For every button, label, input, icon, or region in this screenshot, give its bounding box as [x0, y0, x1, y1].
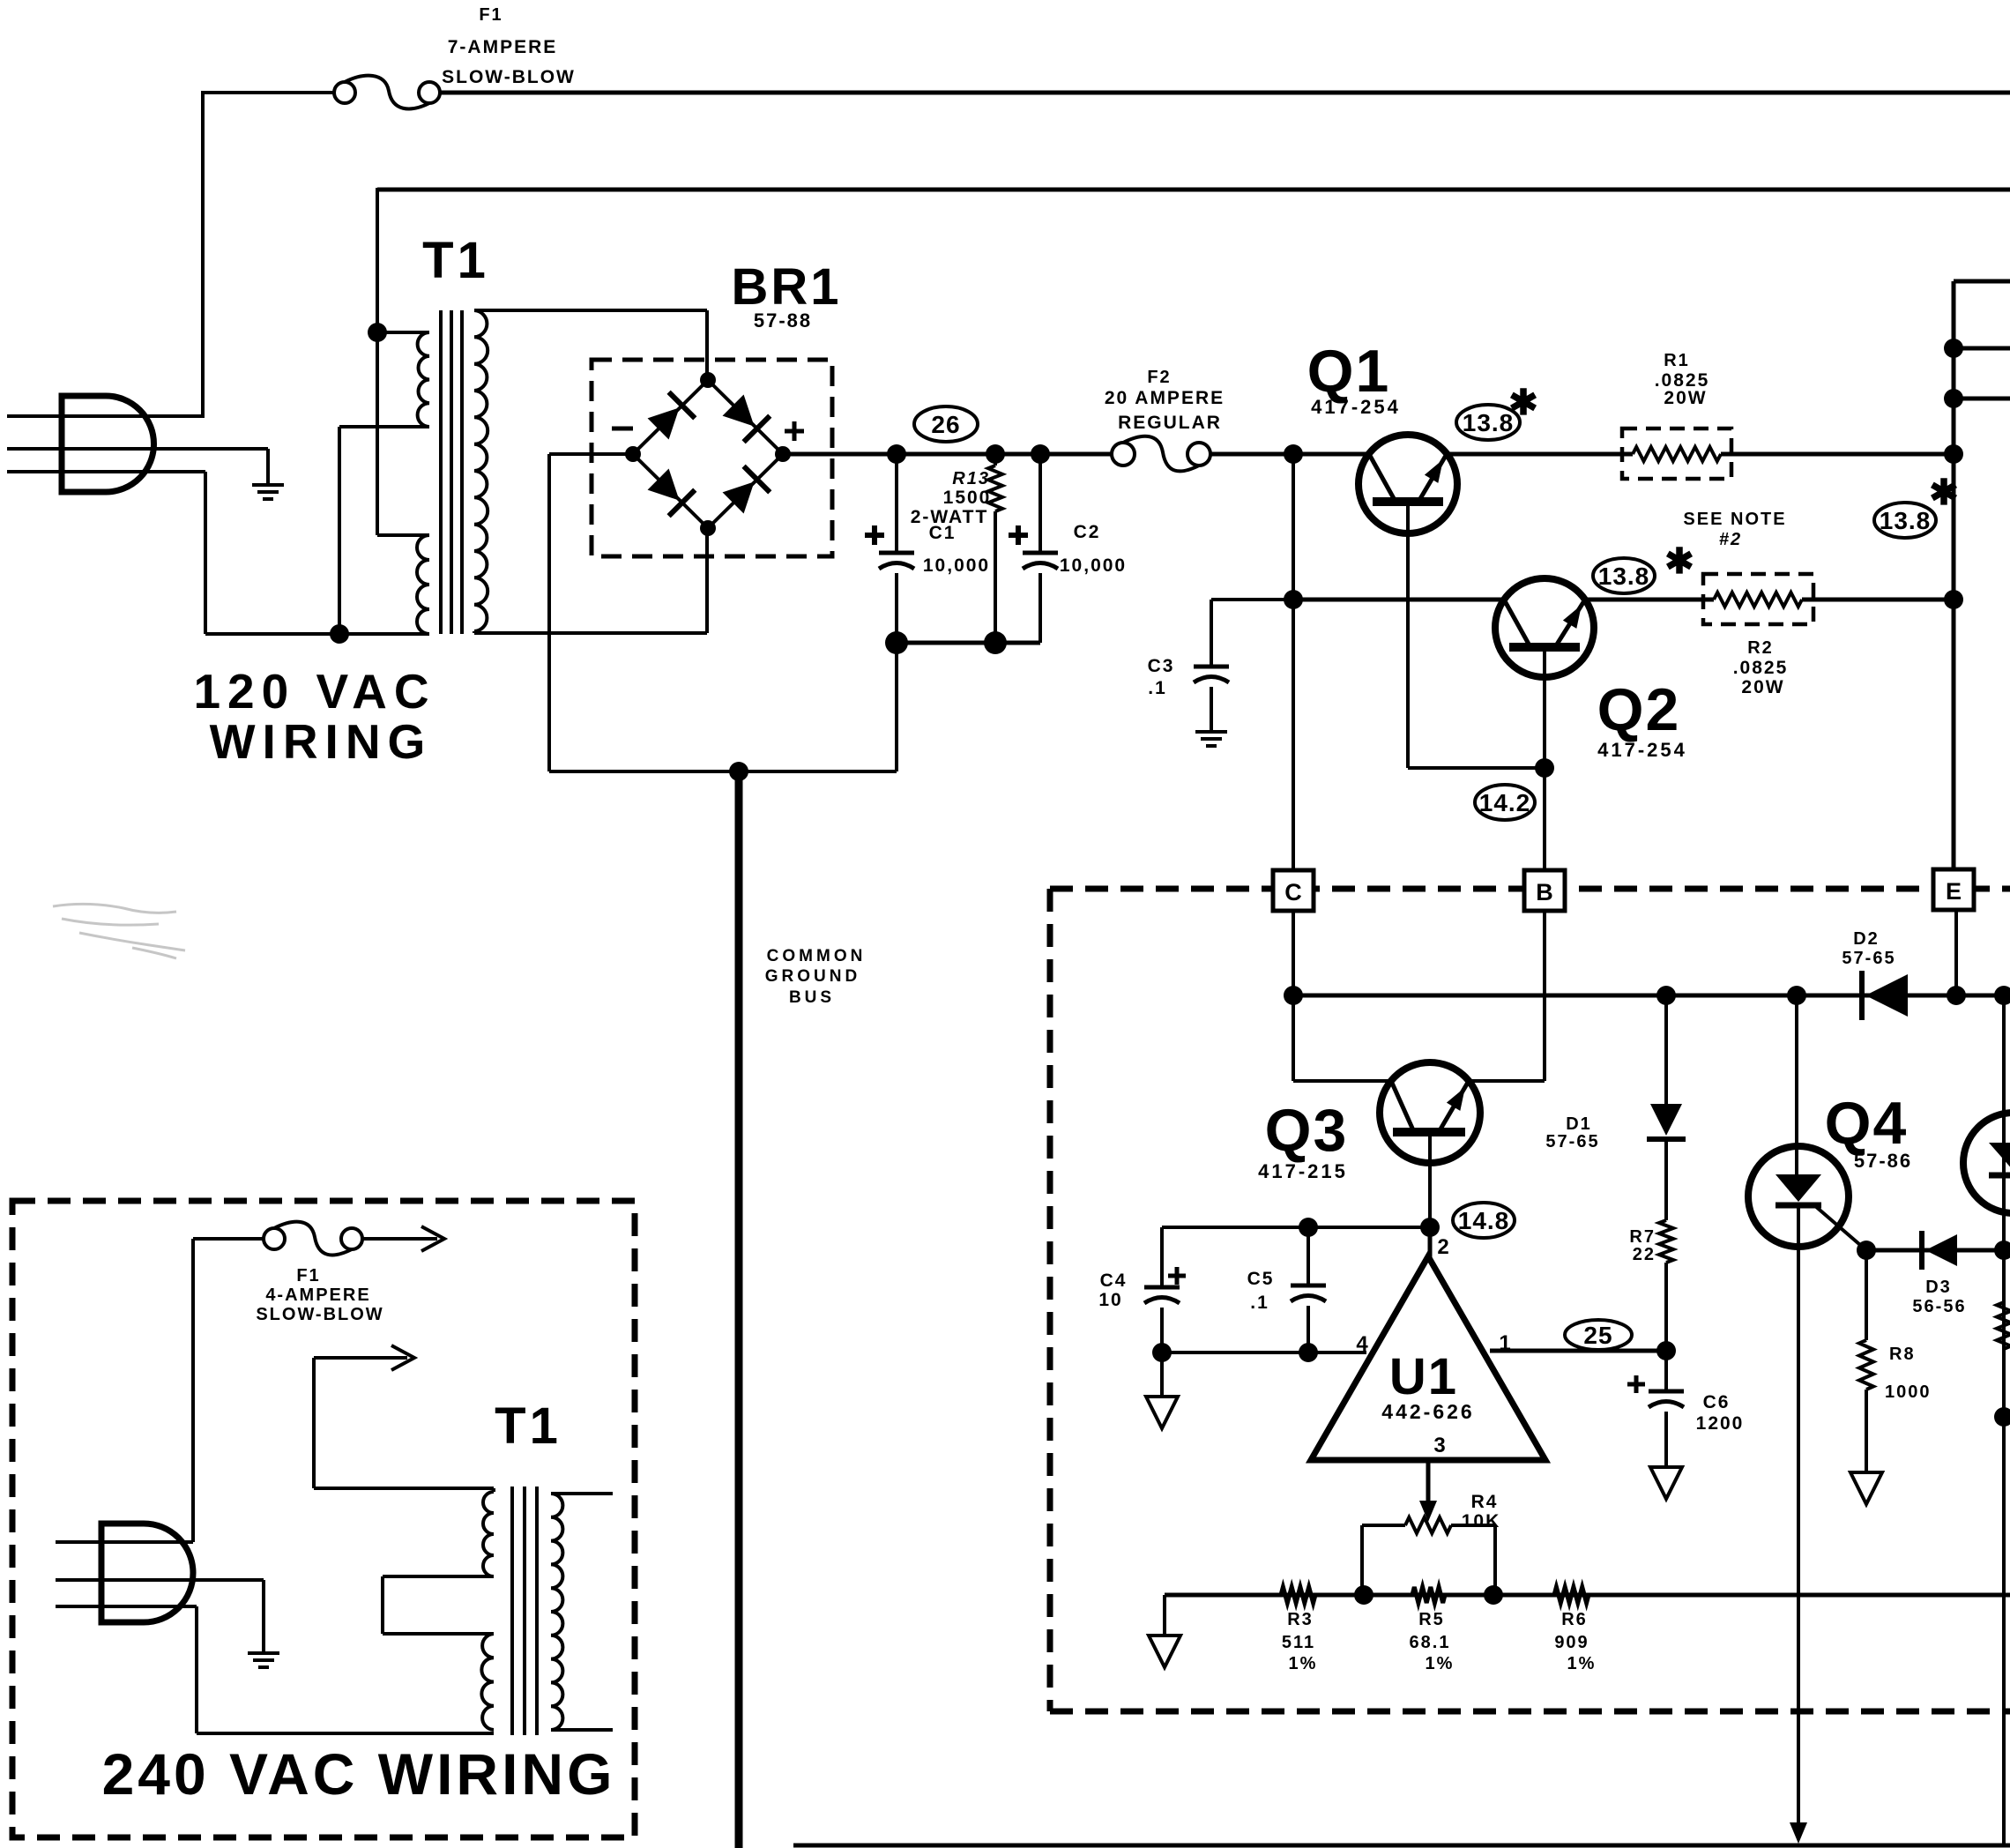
- wire E terminal down: [1954, 909, 1958, 995]
- wire F1 240 output with arrow: [363, 1237, 437, 1241]
- svg-text:10,000: 10,000: [923, 555, 990, 576]
- wire fuse F1 output line to right edge: [441, 91, 2010, 95]
- node junction Q2 rail left: [1284, 590, 1303, 609]
- transformer T1 secondary winding: [474, 310, 488, 631]
- svg-text:7-AMPERE: 7-AMPERE: [448, 37, 558, 57]
- wire U1 pin1 output: [1490, 1349, 1666, 1353]
- earth ground symbol (120 VAC line): [252, 483, 284, 487]
- ground arrow at C4: [1146, 1397, 1178, 1428]
- wire tap to primary winding 1 top: [377, 331, 429, 334]
- label bridge minus: [612, 427, 633, 431]
- wire 240 tap to winding1 top: [314, 1487, 494, 1490]
- wire right bus top stub: [1954, 279, 2010, 284]
- svg-text:C6: C6: [1703, 1392, 1731, 1412]
- svg-text:25: 25: [1583, 1322, 1612, 1349]
- svg-text:Q2: Q2: [1597, 676, 1681, 743]
- wire main positive rail from bridge to F2: [783, 452, 1112, 457]
- wire resistor row: [1165, 1593, 2010, 1598]
- wire C3 stub: [1211, 598, 1293, 601]
- earth ground symbol (240 VAC): [248, 1651, 279, 1655]
- node junction right bus stub 3: [1944, 389, 1963, 408]
- wire capacitor bottom rail: [897, 641, 1040, 645]
- node value oval 13.8 at Q2: [1593, 558, 1655, 593]
- wire Q1 base down: [1406, 506, 1410, 768]
- node junction C line: [1284, 986, 1303, 1005]
- label bridge plus: [785, 429, 804, 434]
- transistor Q2 emitter arrowhead: [1563, 600, 1589, 629]
- svg-text:R4: R4: [1471, 1492, 1499, 1512]
- transistor Q1 emitter line: [1418, 454, 1447, 502]
- svg-text:57-65: 57-65: [1842, 949, 1895, 968]
- svg-text:20W: 20W: [1741, 677, 1784, 697]
- capacitor C2: [1038, 454, 1042, 553]
- scan smudge (decorative): [53, 904, 185, 958]
- node junction Q4 anode: [1787, 986, 1806, 1005]
- node junction R3/R5/R4: [1354, 1585, 1373, 1605]
- svg-text:57-88: 57-88: [754, 309, 812, 332]
- wire bottom prong down: [204, 472, 207, 634]
- svg-text:1%: 1%: [1426, 1654, 1455, 1673]
- wire R7 to C6 node: [1664, 1263, 1668, 1351]
- resistor R2: [1714, 592, 1802, 607]
- svg-text:13.8: 13.8: [1880, 507, 1932, 534]
- svg-text:D1: D1: [1566, 1114, 1592, 1134]
- wire 240 secondary top stub: [551, 1492, 613, 1495]
- bridge diamond wires: [633, 380, 783, 528]
- resistor R7: [1659, 1220, 1673, 1263]
- transistor Q2 base bar: [1509, 643, 1580, 652]
- regulator board dashed outline top edge: [1050, 886, 2010, 892]
- op-amp U1 triangle: [1311, 1256, 1545, 1460]
- wire R1 to right bus: [1721, 452, 1954, 457]
- wire C terminal down: [1292, 911, 1295, 1081]
- wire U1 pin2 stem: [1428, 1227, 1433, 1258]
- node junction right column lower: [1994, 1407, 2010, 1427]
- svg-text:240 VAC WIRING: 240 VAC WIRING: [102, 1741, 616, 1807]
- fuse F2 20 ampere: [1123, 436, 1199, 472]
- AC plug body (240 VAC): [101, 1524, 193, 1622]
- svg-text:BUS: BUS: [789, 988, 835, 1007]
- node junction R5/R6/R4: [1484, 1585, 1503, 1605]
- wire right bus stub 2: [1954, 346, 2010, 351]
- svg-text:1200: 1200: [1696, 1413, 1745, 1434]
- capacitor C3: [1194, 665, 1229, 669]
- resistor R1 dashed box: [1622, 428, 1731, 479]
- resistor R9 (clipped): [1997, 1302, 2010, 1349]
- 240 VAC wiring dashed outline: [12, 1201, 635, 1837]
- wire 240 tap arrow line: [312, 1358, 316, 1488]
- node junction C5 bottom: [1299, 1343, 1318, 1362]
- diode D3: [1922, 1231, 1957, 1270]
- wire R2 to right bus: [1802, 598, 1954, 602]
- open arrowhead 240 tap: [391, 1345, 414, 1370]
- thyristor Q5 circle (clipped): [1963, 1113, 2010, 1213]
- ground arrow at R8: [1850, 1472, 1882, 1504]
- svg-text:120 VAC: 120 VAC: [193, 664, 435, 719]
- svg-text:R6: R6: [1561, 1610, 1588, 1629]
- wire B corner to Q3 emitter: [1469, 1079, 1545, 1083]
- svg-text:1%: 1%: [1567, 1654, 1597, 1673]
- wire bottom bus: [793, 1844, 2010, 1848]
- node bridge bottom vertex: [700, 520, 716, 536]
- node bridge top vertex: [700, 372, 716, 388]
- transformer T1 primary winding 2: [417, 535, 429, 634]
- transformer T1-240 primary winding 1: [483, 1492, 494, 1576]
- potentiometer R4: [1362, 1524, 1405, 1527]
- regulator board dashed outline left edge: [1047, 889, 1053, 1711]
- svg-text:Q1: Q1: [1307, 338, 1391, 405]
- wire Q1 emitter to R1: [1447, 452, 1633, 457]
- node junction R1 right bus: [1944, 444, 1963, 464]
- thyristor Q5 triangle (clipped): [1989, 1143, 2010, 1171]
- node junction F2 output: [1284, 444, 1303, 464]
- svg-text:Q3: Q3: [1265, 1097, 1349, 1164]
- node junction C1 top: [887, 444, 906, 464]
- svg-text:.1: .1: [1250, 1293, 1269, 1313]
- bridge rectifier BR1 dashed outline: [592, 360, 832, 556]
- svg-text:#2: #2: [1719, 530, 1742, 549]
- regulator board dashed outline bottom edge: [1050, 1709, 2010, 1715]
- thyristor Q4 triangle: [1775, 1174, 1821, 1202]
- svg-text:C: C: [1284, 879, 1302, 905]
- svg-text:57-65: 57-65: [1545, 1132, 1599, 1151]
- wire second AC line to right edge: [377, 188, 2010, 192]
- wire D1 to R7: [1664, 1139, 1668, 1220]
- wire C1 bottom down to ground rail: [895, 643, 898, 771]
- svg-text:4: 4: [1356, 1332, 1368, 1356]
- svg-text:GROUND: GROUND: [765, 967, 860, 986]
- wire middle prong to earth ground: [266, 449, 270, 485]
- svg-text:56-56: 56-56: [1912, 1297, 1966, 1316]
- wire bridge left vertex to ground rail: [549, 452, 633, 456]
- svg-text:511: 511: [1282, 1633, 1315, 1652]
- svg-text:U1: U1: [1389, 1348, 1458, 1405]
- node junction C4 bottom: [1152, 1343, 1172, 1362]
- wire C corner to Q3 collector: [1293, 1079, 1391, 1083]
- svg-text:417-254: 417-254: [1311, 396, 1401, 418]
- transistor Q3 collector line: [1391, 1081, 1414, 1132]
- node value oval 14.8: [1453, 1203, 1515, 1238]
- ground arrow at C6: [1650, 1467, 1682, 1499]
- node junction R13 bottom: [984, 631, 1007, 654]
- svg-text:14.8: 14.8: [1458, 1207, 1510, 1234]
- plug bottom prong wire: [7, 470, 205, 473]
- transistor Q2 emitter line: [1555, 600, 1585, 647]
- wire C4 ground stem: [1160, 1352, 1164, 1397]
- resistor R8 with stem: [1865, 1250, 1868, 1340]
- wire right column vertical: [2002, 995, 2006, 1845]
- svg-text:R1: R1: [1664, 351, 1690, 370]
- AC plug body (120 VAC): [62, 396, 153, 492]
- node junction R13 top: [986, 444, 1005, 464]
- wire Q4 cathode down: [1797, 1205, 1800, 1828]
- common ground bus (heavy vertical): [735, 771, 743, 1848]
- wire 240 middle prong to ground: [262, 1580, 265, 1653]
- node value oval 25: [1565, 1320, 1632, 1350]
- transistor Q2 collector line: [1504, 600, 1530, 647]
- node junction Q3 base / U1 pin2: [1420, 1218, 1440, 1237]
- svg-text:10: 10: [1098, 1290, 1122, 1310]
- transistor Q1 collector line: [1369, 454, 1396, 502]
- node junction D1 top: [1656, 986, 1676, 1005]
- transistor Q1 emitter arrowhead: [1425, 455, 1450, 483]
- transistor Q3 emitter arrowhead: [1447, 1083, 1472, 1111]
- svg-text:3: 3: [1433, 1434, 1445, 1457]
- 240 plug top prong: [56, 1540, 193, 1544]
- svg-text:R2: R2: [1747, 638, 1774, 658]
- node junction right bus stub 2: [1944, 339, 1963, 358]
- wire 240 secondary bottom stub: [551, 1728, 613, 1732]
- svg-text:R7: R7: [1629, 1227, 1656, 1247]
- wire internal bus y=1129: [1293, 994, 2004, 998]
- wire 240 plug top prong to fuse: [191, 1239, 195, 1542]
- node junction C1 bottom: [885, 631, 908, 654]
- node junction C6 top: [1656, 1341, 1676, 1360]
- wire right output bus vertical: [1952, 281, 1956, 869]
- node bridge left vertex: [625, 446, 641, 462]
- diode D1: [1647, 1104, 1686, 1139]
- bridge diode bottom-right: [720, 466, 770, 517]
- wire Q4 anode down: [1795, 995, 1798, 1174]
- svg-text:✱: ✱: [1508, 384, 1538, 422]
- 240 plug middle prong: [56, 1578, 264, 1582]
- bridge diode top-right: [720, 392, 770, 443]
- label C1 plus: [865, 533, 884, 538]
- label C6 plus: [1627, 1382, 1645, 1387]
- wire F2 node down to Q2 rail and C terminal: [1292, 454, 1295, 871]
- earth ground symbol at C3: [1195, 730, 1227, 734]
- svg-text:B: B: [1536, 879, 1553, 905]
- node junction D3 right: [1994, 1241, 2010, 1260]
- wire row left ground stem: [1163, 1595, 1166, 1636]
- svg-text:C4: C4: [1100, 1270, 1128, 1291]
- resistor R13: [994, 454, 997, 466]
- wire right bus stub 3: [1954, 397, 2010, 401]
- terminal box B: [1524, 870, 1565, 911]
- node value oval 13.8 at Q1 emitter: [1456, 405, 1520, 440]
- wire Q2 emitter to R2: [1585, 598, 1714, 602]
- wire secondary bottom to bridge bottom: [473, 631, 476, 633]
- node 26 oval: [914, 406, 978, 442]
- node junction on bottom AC wire: [330, 624, 349, 644]
- svg-text:C2: C2: [1074, 522, 1101, 542]
- capacitor C1: [895, 454, 898, 553]
- transistor Q1 circle: [1359, 435, 1457, 533]
- wire gate node to D3: [1866, 1248, 2004, 1253]
- svg-text:417-215: 417-215: [1258, 1160, 1348, 1182]
- svg-text:BR1: BR1: [731, 258, 841, 316]
- svg-text:68.1: 68.1: [1410, 1633, 1451, 1652]
- wire AC line from plug to fuse F1 (vertical + horizontal): [201, 93, 205, 416]
- svg-text:SEE NOTE: SEE NOTE: [1683, 510, 1786, 529]
- wire Q2 rail: [1293, 598, 1504, 602]
- wire Q2 base stem down: [1543, 652, 1546, 871]
- bridge diode top-left: [645, 392, 696, 443]
- svg-text:Q4: Q4: [1825, 1090, 1909, 1157]
- wire bottom AC to transformer winding 2 bottom: [205, 632, 429, 636]
- node junction Q2 base drive: [1535, 758, 1554, 778]
- thyristor Q5 cathode bar (clipped): [1989, 1173, 2010, 1179]
- capacitor C4: [1160, 1227, 1164, 1287]
- svg-text:D3: D3: [1925, 1278, 1952, 1297]
- svg-text:REGULAR: REGULAR: [1118, 413, 1222, 433]
- plug top prong wire: [7, 414, 205, 418]
- transistor Q1 base bar: [1373, 497, 1443, 506]
- wire F2 to Q1: [1210, 452, 1369, 457]
- svg-text:20W: 20W: [1664, 388, 1707, 408]
- node junction C5 top: [1299, 1218, 1318, 1237]
- transformer T1 core lines: [439, 310, 443, 634]
- node junction common ground bus top: [729, 762, 748, 781]
- wire tap to primary winding 2 top: [377, 533, 429, 537]
- svg-text:1500: 1500: [943, 488, 992, 508]
- svg-text:COMMON: COMMON: [767, 947, 867, 965]
- svg-text:442-626: 442-626: [1381, 1400, 1474, 1423]
- svg-text:R8: R8: [1889, 1345, 1916, 1364]
- wire Q1 base over to Q2 emitter node: [1408, 766, 1545, 770]
- wire from second AC line down to transformer primary tap: [376, 188, 379, 535]
- terminal box E: [1933, 869, 1974, 910]
- ground arrow at resistor row: [1149, 1636, 1180, 1667]
- svg-text:1%: 1%: [1289, 1654, 1318, 1673]
- label C2 plus: [1009, 533, 1028, 538]
- node junction Q4 gate / R8 / D3: [1857, 1241, 1876, 1260]
- svg-text:SLOW-BLOW: SLOW-BLOW: [442, 67, 576, 87]
- svg-text:F1: F1: [296, 1266, 320, 1285]
- svg-text:WIRING: WIRING: [210, 714, 433, 769]
- svg-text:✱: ✱: [1664, 542, 1694, 581]
- svg-text:C5: C5: [1247, 1269, 1275, 1289]
- svg-text:R5: R5: [1418, 1610, 1445, 1629]
- plug middle prong wire: [7, 447, 268, 451]
- thyristor Q4 cathode bar: [1775, 1203, 1821, 1209]
- resistor R6: [1554, 1587, 1589, 1603]
- 240 plug bottom prong: [56, 1605, 197, 1608]
- svg-text:26: 26: [931, 411, 960, 438]
- svg-text:F1: F1: [479, 5, 502, 25]
- svg-text:C3: C3: [1148, 656, 1175, 676]
- wire U1 pin3 down: [1426, 1460, 1431, 1501]
- node junction R2 right bus: [1944, 590, 1963, 609]
- arrowhead Q4 cathode to bottom bus: [1790, 1822, 1807, 1844]
- svg-text:T1: T1: [495, 1397, 562, 1455]
- node junction E line bottom: [1947, 986, 1966, 1005]
- resistor R5: [1412, 1587, 1445, 1603]
- open arrowhead F1 240: [421, 1226, 444, 1251]
- svg-text:R13: R13: [952, 469, 990, 488]
- svg-text:20 AMPERE: 20 AMPERE: [1105, 388, 1225, 408]
- terminal box C: [1273, 870, 1314, 911]
- thyristor Q4 gate wire: [1814, 1205, 1866, 1250]
- svg-text:.0825: .0825: [1733, 658, 1789, 678]
- series link primary windings: [383, 1575, 494, 1578]
- svg-text:E: E: [1946, 878, 1962, 905]
- fuse F1 (240 VAC) 4-ampere: [274, 1222, 352, 1256]
- svg-text:4-AMPERE: 4-AMPERE: [265, 1285, 370, 1305]
- wire B terminal down: [1543, 911, 1546, 1081]
- transformer T1-240 core lines: [510, 1487, 514, 1735]
- transformer T1-240 secondary winding: [551, 1494, 562, 1730]
- svg-text:R3: R3: [1287, 1610, 1314, 1629]
- arrowhead U1 pin3 to R4 wiper: [1419, 1501, 1437, 1522]
- svg-text:22: 22: [1633, 1245, 1656, 1264]
- wire C4/C5 top line: [1162, 1226, 1430, 1229]
- thyristor Q4 circle: [1748, 1146, 1849, 1247]
- svg-text:909: 909: [1554, 1633, 1589, 1652]
- svg-text:T1: T1: [422, 232, 489, 289]
- node junction C2 top: [1031, 444, 1050, 464]
- wire ground rail horizontal: [549, 770, 897, 773]
- svg-text:57-86: 57-86: [1854, 1150, 1912, 1172]
- wire C4/C5 bottom line to U1 pin4: [1162, 1351, 1366, 1354]
- transformer T1-240 primary winding 2: [481, 1634, 494, 1730]
- node junction primary top tap: [368, 323, 387, 342]
- svg-text:1000: 1000: [1885, 1382, 1932, 1402]
- transformer T1 primary winding 1: [418, 332, 429, 427]
- transistor Q3 circle: [1380, 1062, 1480, 1163]
- transistor Q3 emitter line: [1439, 1081, 1469, 1132]
- wire D1 column top: [1664, 995, 1668, 1110]
- capacitor C6: [1664, 1351, 1668, 1391]
- bridge diode bottom-left: [645, 466, 696, 517]
- svg-text:417-254: 417-254: [1597, 739, 1687, 761]
- transistor Q2 circle: [1495, 578, 1594, 677]
- resistor R3: [1281, 1587, 1315, 1603]
- svg-text:10,000: 10,000: [1060, 555, 1127, 576]
- resistor R1: [1633, 447, 1721, 461]
- node bridge right vertex: [775, 446, 791, 462]
- fuse F1 7-ampere slow-blow: [345, 76, 429, 109]
- svg-text:D2: D2: [1853, 929, 1880, 949]
- node value oval 13.8 right: [1874, 503, 1936, 538]
- resistor R2 dashed box: [1703, 574, 1813, 624]
- label C4 plus: [1168, 1274, 1186, 1278]
- capacitor C5: [1306, 1227, 1310, 1285]
- svg-text:2-WATT: 2-WATT: [911, 507, 989, 527]
- svg-text:13.8: 13.8: [1598, 563, 1650, 590]
- wire Q3 base down: [1428, 1136, 1432, 1227]
- svg-text:2: 2: [1437, 1235, 1448, 1259]
- svg-text:F2: F2: [1147, 368, 1171, 387]
- svg-text:SLOW-BLOW: SLOW-BLOW: [256, 1305, 383, 1324]
- diode D2: [1862, 971, 1908, 1020]
- transistor Q3 base bar: [1393, 1128, 1465, 1136]
- node junction right column top: [1994, 986, 2010, 1005]
- wire winding1 top hook: [492, 1488, 495, 1492]
- svg-text:.1: .1: [1148, 678, 1167, 698]
- svg-text:14.2: 14.2: [1479, 789, 1531, 816]
- wire from junction up to winding 1 bottom: [338, 427, 341, 634]
- svg-text:10K: 10K: [1462, 1511, 1501, 1531]
- wire 240 bottom to winding2: [197, 1732, 494, 1735]
- node value oval 14.2: [1475, 785, 1535, 820]
- wire secondary top to bridge: [474, 309, 707, 312]
- svg-text:13.8: 13.8: [1463, 409, 1515, 436]
- wire 240 bottom prong down: [195, 1606, 198, 1733]
